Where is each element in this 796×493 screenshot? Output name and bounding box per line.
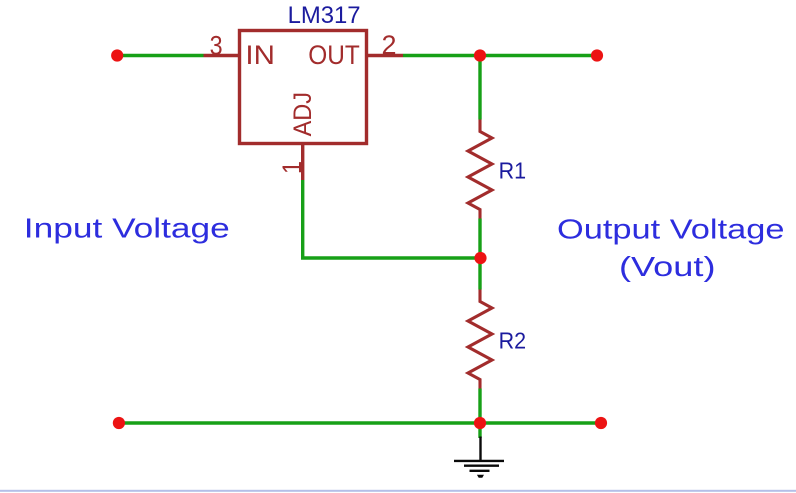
node bottom-right terminal	[595, 417, 607, 429]
node bottom junction	[474, 417, 486, 429]
wire pin3 stub	[204, 54, 240, 57]
node top junction	[474, 49, 486, 61]
wire R2 to bottom rail	[478, 389, 481, 424]
resistor R2	[468, 290, 492, 389]
wire top output segment	[403, 54, 597, 57]
svg-text:R2: R2	[499, 328, 526, 354]
wire top junction to R1	[478, 56, 481, 120]
bottom divider	[0, 490, 796, 492]
svg-text:Input Voltage: Input Voltage	[24, 212, 230, 243]
svg-text:OUT: OUT	[308, 40, 360, 70]
svg-text:3: 3	[210, 30, 223, 60]
node mid junction	[474, 252, 486, 264]
svg-text:LM317: LM317	[288, 3, 361, 29]
svg-text:2: 2	[382, 30, 397, 60]
wire pin1 ADJ stub	[301, 144, 304, 180]
wire ground stub	[478, 423, 481, 438]
ground	[454, 437, 504, 471]
wire bottom rail	[118, 421, 601, 424]
IC U1 LM317 voltage regulator body	[240, 31, 367, 144]
wire R1 to R2 through mid junction	[478, 219, 481, 290]
svg-text:ADJ: ADJ	[289, 92, 317, 137]
wire top-left input segment	[117, 54, 204, 57]
node input terminal	[111, 49, 123, 61]
svg-text:IN: IN	[245, 40, 275, 70]
svg-text:Output Voltage: Output Voltage	[557, 213, 785, 244]
node bottom-left terminal	[113, 417, 125, 429]
wire pin2 stub	[367, 54, 404, 57]
svg-text:R1: R1	[499, 158, 526, 184]
svg-text:(Vout): (Vout)	[619, 251, 716, 282]
svg-text:1: 1	[277, 161, 307, 174]
wire ADJ feedback L-path	[303, 180, 480, 258]
resistor R1	[468, 120, 492, 219]
node output terminal	[591, 49, 603, 61]
